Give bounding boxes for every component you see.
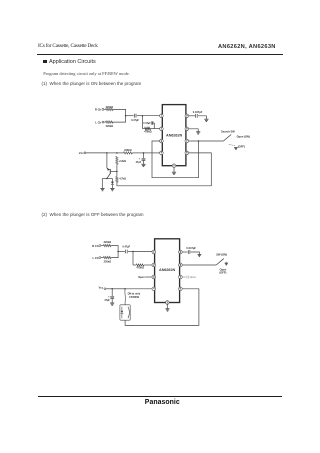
wire node C vertical — [153, 123, 155, 129]
R3 value label 470kΩ — [144, 131, 152, 134]
wire node D to C3 — [143, 153, 145, 158]
footer logo Panasonic — [145, 399, 180, 406]
wire Vcc rail to R6 — [117, 152, 124, 154]
wire node B down — [142, 116, 144, 129]
resistor R6 220kΩ on Vcc rail — [123, 152, 132, 154]
wire R Ch to R1 — [104, 108, 106, 110]
wire pin 9 to C7 — [182, 251, 187, 253]
pin 8 of U2 — [179, 263, 183, 267]
wire to C6 — [111, 289, 113, 297]
Q1 emitter lead with arrow — [107, 168, 110, 171]
wire R2 to node A — [113, 116, 125, 122]
switch S2 blade (SW) — [216, 259, 224, 265]
wire node F to pin 1 — [133, 251, 152, 253]
resistor R3 470kΩ — [145, 127, 151, 129]
terminal R Ch — [99, 245, 101, 247]
wire node E to C5 — [118, 251, 125, 253]
capacitor C8 (faint) — [187, 276, 188, 279]
ground below C4 — [204, 119, 208, 121]
wire Vcc to plunger (flex lead) — [124, 289, 127, 305]
node Vcc label — [99, 285, 104, 289]
node Vcc label — [79, 151, 84, 155]
wire base node to R5 — [116, 171, 118, 176]
pin 3 of U1 — [160, 139, 164, 143]
wire to R9 — [133, 264, 136, 266]
transistor Q1 base bar — [109, 169, 111, 174]
node E junction — [117, 251, 119, 253]
header right part numbers AN6262N, AN6263N — [218, 44, 276, 50]
pin 2 of U2 — [152, 263, 156, 267]
pin 6 of U1 — [185, 151, 189, 155]
S1 closed-position dashed mark — [229, 144, 235, 145]
wire pin 7 stub — [182, 276, 186, 278]
S2 label SW (ON) — [216, 253, 227, 257]
wire Vcc to junction — [106, 288, 112, 290]
junction divider node — [116, 171, 118, 173]
capacitor C6 47µF electrolytic — [110, 296, 114, 298]
pin 8 of U1 — [185, 127, 189, 131]
svg-text:SW (ON): SW (ON) — [216, 253, 227, 257]
C6 polarity + — [108, 295, 110, 298]
ground below Q1 left — [100, 189, 104, 191]
svg-text:AN6262N: AN6262N — [159, 268, 175, 272]
wire inner feedback loop pin 3 to pin 7 node — [152, 141, 199, 178]
svg-text:AN6262N: AN6262N — [166, 134, 182, 138]
capacitor C5 0.47µF coupling — [126, 250, 128, 254]
svg-text:47µF: 47µF — [145, 122, 151, 125]
junction Vcc/Q1 emitter — [106, 152, 108, 154]
wire to C2 — [143, 122, 145, 124]
wire R6 to node D — [132, 152, 143, 154]
C1 value label 0.47µF — [131, 119, 139, 122]
wire node A to C1 — [126, 115, 134, 117]
note: program detecting circuit — [43, 71, 130, 76]
junction Vcc/plunger — [124, 288, 126, 290]
ground below C6 — [110, 303, 114, 305]
ground below pin 5 — [165, 309, 169, 311]
op-amp U2 AN6262N IC body — [155, 239, 180, 303]
S2 state label Open — [220, 267, 227, 271]
caption (1) — [42, 81, 142, 86]
svg-text:220kΩ: 220kΩ — [106, 106, 114, 109]
node R Ch input label — [92, 244, 99, 248]
C3 value label 47µF — [136, 161, 142, 164]
junction Q1 collector node — [106, 178, 108, 180]
resistor R5 4.7kΩ — [116, 177, 118, 183]
wire D1 to ground — [111, 185, 113, 189]
S2 fixed contact lead — [225, 262, 227, 263]
ground below D1 — [110, 189, 114, 191]
svg-text:0.047µF: 0.047µF — [193, 110, 203, 114]
terminal Vcc — [104, 288, 106, 290]
R6 value label 220kΩ — [124, 149, 132, 152]
capacitor C3 47µF electrolytic to ground — [142, 158, 146, 160]
pin 6 of U2 — [179, 287, 183, 291]
svg-text:(OFF): (OFF) — [219, 271, 226, 275]
ground below C3 — [141, 164, 145, 166]
wire C7 to ground — [191, 252, 200, 254]
pin 4 of U2 — [152, 287, 156, 291]
resistor R8 220k (L channel) — [103, 256, 111, 258]
diode D2 inside plunger box — [121, 307, 124, 319]
C6 value label 47µF — [104, 299, 110, 302]
plunger note line 2: FF/REW — [129, 296, 139, 299]
pin 2 of U1 — [160, 127, 164, 131]
wire Vcc rail left — [86, 152, 107, 154]
wire R4 to base node — [116, 164, 118, 171]
capacitor C1 0.47µF coupling — [134, 114, 136, 118]
node R Ch input label — [95, 108, 102, 112]
wire C1 to node B — [137, 115, 143, 117]
svg-text:R Ch: R Ch — [95, 108, 102, 112]
svg-text:V​cc: V​cc — [79, 151, 84, 155]
wire C2 to node C — [153, 122, 156, 124]
wire outer feedback loop to pin 6 — [117, 153, 211, 186]
junction Vcc/C6 — [111, 288, 113, 290]
pin 9 of U2 — [179, 250, 183, 254]
C3 polarity + — [139, 158, 141, 161]
header left title — [38, 43, 98, 49]
pin 3 of U2 — [152, 275, 156, 279]
wire node C to pin 2 — [154, 128, 159, 130]
wire Q1 base to divider node — [111, 170, 117, 172]
svg-text:0.47µF: 0.47µF — [122, 246, 130, 249]
switch S1 blade (Search SW) — [223, 135, 231, 142]
wire L Ch to R8 — [101, 257, 104, 259]
resistor R1 220k (R channel) — [106, 108, 114, 110]
resistor R7 220k (R channel) — [103, 244, 111, 246]
node L Ch input label — [95, 120, 101, 124]
svg-text:47µF: 47µF — [136, 161, 142, 164]
C7 value label 0.05µF — [186, 246, 196, 250]
resistor R4 2.2kΩ — [116, 156, 118, 164]
wire pin 8 to switch — [182, 264, 216, 266]
wire Open stub to pin 3 — [145, 276, 152, 278]
wire node F down — [132, 252, 134, 266]
svg-text:V​cc: V​cc — [99, 285, 104, 289]
wire Vcc to Q1 emitter — [106, 153, 108, 168]
S1 state label (OFF) — [238, 144, 245, 148]
R9 value label 470kΩ — [136, 267, 144, 270]
pin 1 of U1 — [160, 114, 164, 118]
U2 part label AN6262N — [159, 268, 175, 272]
plunger K1 box — [120, 305, 130, 320]
wire node D to pin 4 — [144, 152, 160, 154]
pin 4 of U1 — [160, 151, 164, 155]
Q1 collector lead — [107, 174, 110, 179]
ground below C7 — [198, 255, 202, 257]
resistor R9 470kΩ — [136, 264, 144, 266]
wire plunger loop to pin 6 — [125, 289, 199, 326]
caption (2) — [42, 212, 144, 217]
wire node B to pin 1 — [143, 115, 160, 117]
pin 5 of U1 — [172, 164, 176, 168]
wire C4 to ground — [198, 116, 206, 119]
svg-text:470kΩ: 470kΩ — [144, 131, 152, 134]
wire to ground left — [101, 179, 103, 189]
pin 7 of U2 — [179, 275, 183, 279]
wire pin 5 to ground — [166, 304, 168, 308]
R2 value label 220kΩ — [106, 125, 114, 128]
S2 state label (OFF) — [219, 271, 226, 275]
terminal Vcc — [84, 152, 86, 154]
svg-text:Open (ON): Open (ON) — [237, 135, 250, 139]
svg-text:220kΩ: 220kΩ — [124, 149, 132, 152]
wire pin 5 to ground — [173, 168, 175, 172]
svg-text:220kΩ: 220kΩ — [106, 125, 114, 128]
R7 value label 220kΩ — [104, 241, 112, 244]
op-amp U1 AN6262N IC body — [162, 105, 186, 166]
svg-text:L Ch: L Ch — [95, 120, 101, 124]
node D junction — [143, 152, 145, 154]
wire R9 to pin 2 — [144, 264, 152, 266]
wire C6 to ground — [111, 299, 113, 303]
svg-text:R Ch: R Ch — [92, 244, 99, 248]
wire R3 to node C — [151, 128, 155, 130]
svg-text:Search SW: Search SW — [221, 130, 235, 134]
wire R8 to node E — [111, 252, 118, 258]
ground at S2 contact — [225, 263, 228, 265]
pin 3 state label Open — [138, 276, 145, 279]
wire pin 9 to C4 — [189, 115, 195, 117]
pin 7 of U1 — [185, 139, 189, 143]
node F junction — [132, 251, 134, 253]
wire pin 8 to ground — [189, 129, 199, 132]
junction Vcc/R4 divider — [116, 152, 118, 154]
wire collector node horizontal — [102, 178, 112, 180]
ground below pin 8 — [196, 132, 200, 134]
C5 value label 0.47µF — [122, 246, 130, 249]
pin 1 of U2 — [152, 250, 156, 254]
svg-text:2.2kΩ: 2.2kΩ — [119, 160, 126, 163]
svg-text:0.047µF: 0.047µF — [186, 246, 196, 250]
pin 7 faint label — [190, 276, 197, 279]
footer rule — [38, 396, 282, 397]
plunger note line 1: ON at only — [128, 293, 141, 296]
svg-text:FF/REW: FF/REW — [129, 296, 139, 299]
terminal L Ch — [99, 257, 101, 259]
header rule — [37, 54, 283, 55]
C2 value label 47µF — [145, 122, 151, 125]
wire R5 down — [116, 182, 118, 186]
ground at S1 OFF contact — [234, 148, 238, 150]
node A junction — [125, 115, 127, 117]
R5 value label 4.7kΩ — [119, 178, 126, 181]
pin 9 of U1 — [185, 114, 189, 118]
svg-text:Open: Open — [138, 276, 145, 279]
wire C3 to ground — [143, 161, 145, 165]
resistor R2 220k (L channel) — [106, 121, 114, 123]
svg-text:4.7kΩ: 4.7kΩ — [119, 178, 126, 181]
section heading Application Circuits — [43, 59, 96, 65]
capacitor C4 0.05µF — [196, 114, 198, 118]
wire Vcc rail mid — [107, 152, 117, 154]
S1 state label Open (ON) — [237, 135, 250, 139]
svg-text:47µF: 47µF — [104, 299, 110, 302]
wire R Ch to R7 — [101, 245, 104, 247]
svg-text:220kΩ: 220kΩ — [104, 241, 112, 244]
svg-text:Open: Open — [190, 276, 197, 279]
svg-text:L Ch: L Ch — [92, 256, 98, 260]
U1 part label AN6262N — [166, 134, 182, 138]
wire Vcc to pin 4 — [125, 288, 152, 290]
wire to R3 — [143, 128, 145, 130]
R1 value label 220kΩ — [106, 106, 114, 109]
ground below pin 5 — [172, 172, 176, 174]
terminal L Ch — [102, 121, 104, 123]
terminal R Ch — [102, 108, 104, 110]
S1 label Search SW — [221, 130, 235, 134]
svg-text:0.47µF: 0.47µF — [131, 119, 139, 122]
C4 value label 0.05µF — [193, 110, 203, 114]
R8 value label 220kΩ — [104, 261, 112, 264]
node L Ch input label — [92, 256, 98, 260]
diode D1 — [111, 182, 114, 185]
capacitor C7 0.05µF — [188, 250, 190, 254]
R4 value label 2.2kΩ — [119, 160, 126, 163]
svg-text:(OFF): (OFF) — [238, 144, 245, 148]
wire pin 7 to switch — [189, 140, 224, 142]
capacitor C2 47µF electrolytic — [151, 121, 153, 124]
wire to diode D1 — [111, 179, 113, 182]
node B junction — [142, 115, 144, 117]
svg-text:470kΩ: 470kΩ — [136, 267, 144, 270]
wire L Ch to R2 — [104, 121, 106, 123]
wire R7 to node E — [111, 246, 118, 252]
pin 5 of U2 — [166, 300, 170, 304]
junction pin7/loop — [198, 140, 200, 142]
svg-text:220kΩ: 220kΩ — [104, 261, 112, 264]
wire R1 to node A — [113, 109, 125, 115]
coil of plunger K1 — [128, 307, 129, 318]
wire Vcc rail — [112, 288, 125, 290]
wire C5 to node F — [128, 251, 133, 253]
